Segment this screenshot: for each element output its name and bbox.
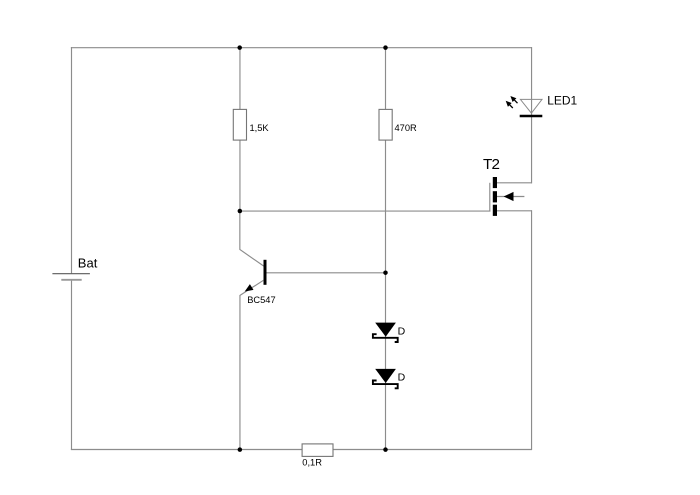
diode D2 triangle [375,369,396,383]
resistor R3 0,1R body [302,444,333,457]
battery Bat plate long [52,273,90,275]
wire T2 drain [497,182,532,184]
wire T2 source [497,210,532,212]
wire top rail down through LED1 to T2 drain corner [531,47,533,183]
transistor Q1 BC547 emitter arrow [245,284,254,291]
junction node bottom-right [383,447,388,452]
wire bottom rail right of 0,1R [333,449,532,451]
svg-text:470R: 470R [395,123,418,133]
junction node base-diode [383,270,388,275]
wire right rail (T2 source to bottom) [531,210,533,450]
wire gate node down to Q1 collector [240,211,264,266]
junction node gate [238,209,243,214]
svg-text:0,1R: 0,1R [302,457,322,467]
LED LED1 triangle [520,99,542,113]
wire top rail [71,47,532,49]
LED LED1 light arrow right [510,96,517,103]
svg-text:BC547: BC547 [247,295,275,305]
svg-text:D: D [398,325,406,337]
resistor R1 1,5K body [233,109,246,140]
transistor T2 channel bar top segment (drain) [493,177,497,188]
wire gate node to T2 gate [240,210,491,212]
resistor R2 470R body [379,109,392,140]
transistor T2 body arrow [504,192,514,201]
LED LED1 cathode bar [520,115,543,117]
svg-text:T2: T2 [483,156,499,173]
battery Bat plate short [61,279,81,281]
transistor T2 body lead [497,196,524,198]
LED LED1 light arrow left [506,101,513,108]
transistor T2 channel bar middle segment (body) [493,191,497,202]
diode D1 zener cathode bar with hooks [373,334,398,342]
transistor Q1 BC547 emitter lead [240,280,264,295]
svg-text:D: D [398,372,406,384]
wire from R 1,5K to gate node [239,140,241,211]
svg-text:1,5K: 1,5K [250,123,270,133]
svg-text:Bat: Bat [78,256,98,271]
diode D2 zener cathode bar with hooks [373,381,398,389]
wire bottom rail left of 0,1R [71,449,302,451]
wire from 470R through diodes to bottom rail [385,140,387,450]
diode D1 triangle [375,323,396,337]
wire left rail upper (battery +) [71,47,73,273]
wire from top rail to resistor R 1,5K [239,47,241,110]
svg-text:LED1: LED1 [547,94,577,108]
wire Q1 emitter down to bottom rail [239,295,241,450]
wire from top rail to resistor 470R [385,47,387,110]
transistor T2 channel bar bottom segment (source) [493,205,497,216]
transistor T2 gate plate [489,183,491,212]
wire left rail lower (battery -) [71,280,73,450]
junction node top-left [237,45,242,50]
junction node top-right [383,45,388,50]
wire Q1 base to diode node [267,272,386,274]
junction node bottom-left [238,447,243,452]
transistor Q1 BC547 base bar [264,260,267,285]
